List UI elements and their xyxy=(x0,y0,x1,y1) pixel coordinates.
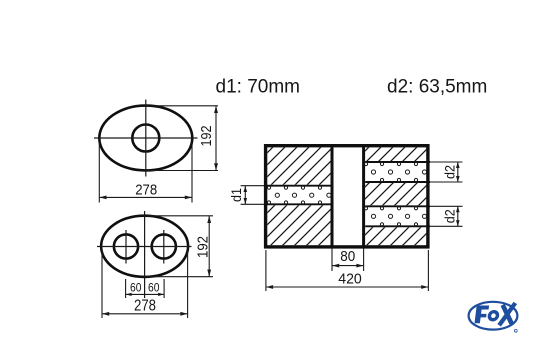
top view: muffler body oval xyxy=(99,106,192,171)
section: d1 perforated pipe strip xyxy=(241,186,331,205)
section: dimension d2 upper xyxy=(442,162,460,182)
letter X xyxy=(499,303,515,325)
bottom view: dimension 192 (height) xyxy=(147,216,213,277)
section: left absorber hatching upper xyxy=(267,147,330,184)
section: d2 upper perforated pipe strip xyxy=(364,162,462,182)
label d1: 70mm xyxy=(216,77,300,98)
section: chamber gap left wall xyxy=(331,146,334,247)
svg-text:278: 278 xyxy=(134,297,156,314)
letter O xyxy=(489,312,498,320)
bottom view: dimension 60 right xyxy=(145,279,164,298)
section: body outline xyxy=(266,146,428,247)
bottom view: left pipe hole xyxy=(114,234,138,258)
section: dimension 80 (gap) xyxy=(332,248,364,271)
section: dimension d1 xyxy=(228,186,247,204)
svg-text:420: 420 xyxy=(338,271,362,288)
section: d2 lower perforated pipe strip xyxy=(364,206,462,226)
bottom view: right pipe hole xyxy=(152,234,176,258)
svg-text:60: 60 xyxy=(148,280,160,294)
bottom view: muffler body oval xyxy=(101,216,188,277)
top view: dimension 192 (height) xyxy=(147,106,218,171)
bottom view: dimension 278 (width) xyxy=(102,250,188,318)
bottom view: dimension 60 left xyxy=(126,279,145,298)
svg-text:192: 192 xyxy=(195,236,212,258)
section: dimension 420 (length) xyxy=(266,250,429,291)
section: chamber gap right wall xyxy=(362,146,365,247)
svg-text:80: 80 xyxy=(340,248,355,265)
section: left absorber hatching lower xyxy=(267,205,330,245)
logo ellipse xyxy=(469,302,518,330)
registered trademark xyxy=(514,329,517,332)
top view: vertical centerline xyxy=(145,100,147,177)
bottom view: horizontal centerline xyxy=(97,246,192,248)
top view: inlet hole d1 xyxy=(132,125,159,152)
bottom view: vertical centerline xyxy=(144,211,146,298)
svg-text:d1: d1 xyxy=(228,188,244,202)
section: right absorber hatching middle xyxy=(365,183,426,205)
bottom view: right hole centerline xyxy=(163,230,165,264)
svg-text:d2: 63,5mm: d2: 63,5mm xyxy=(387,77,487,98)
letter F xyxy=(474,303,515,325)
svg-text:278: 278 xyxy=(135,182,157,199)
label d2: 63,5mm xyxy=(387,77,487,98)
FOX logo xyxy=(469,302,518,332)
svg-text:d2: d2 xyxy=(442,165,458,179)
section: right absorber hatching top xyxy=(365,147,426,161)
svg-text:192: 192 xyxy=(198,126,215,147)
svg-text:60: 60 xyxy=(130,280,142,294)
svg-text:d1: 70mm: d1: 70mm xyxy=(216,77,300,98)
section: dimension d2 lower xyxy=(442,206,460,226)
section: right absorber hatching bottom xyxy=(365,227,426,245)
svg-text:d2: d2 xyxy=(442,209,458,223)
bottom view: left hole centerline xyxy=(125,230,127,264)
top view: dimension 278 (width) xyxy=(99,142,192,203)
top view: horizontal centerline xyxy=(94,137,198,139)
